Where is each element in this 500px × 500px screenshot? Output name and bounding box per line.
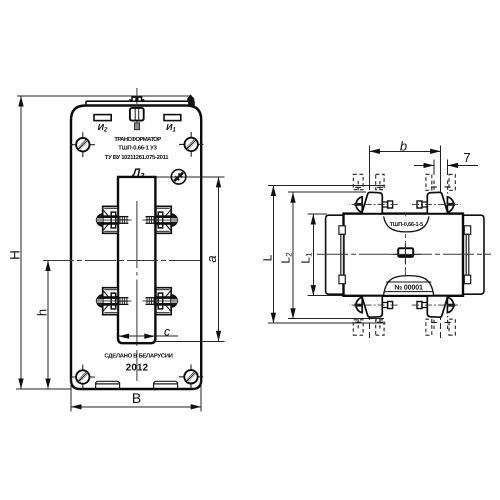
- horizontal centerline: [43, 260, 202, 262]
- svg-text:ТУ ВУ 10211261.075-2011: ТУ ВУ 10211261.075-2011: [105, 154, 169, 161]
- top terminal clamp small block on bar: [132, 97, 142, 101]
- svg-text:№ 00001: № 00001: [394, 285, 423, 292]
- L2 dimension line: [292, 192, 294, 319]
- a bottom extension line: [155, 340, 224, 342]
- b extension line left: [368, 145, 370, 190]
- h dimension line: [47, 261, 49, 390]
- terminal cover plate right: [164, 115, 181, 121]
- grounding bolt (dark, top right): [187, 94, 194, 105]
- 7 dimension arrows: [414, 164, 434, 166]
- clamp bottom-left: [349, 296, 398, 317]
- phantom bottom-right: [426, 316, 455, 335]
- svg-text:h: h: [35, 309, 50, 316]
- clamp top-left: [349, 192, 398, 213]
- top-left case screw: [71, 132, 95, 157]
- svg-text:ТШП-0,66-1-5: ТШП-0,66-1-5: [390, 222, 423, 228]
- svg-text:СДЕЛАНО В БЕЛАРУСИИ: СДЕЛАНО В БЕЛАРУСИИ: [104, 352, 172, 359]
- clamp upper-right: [142, 206, 178, 233]
- right mounting foot: [154, 381, 178, 389]
- horizontal centerline (side view): [317, 253, 491, 255]
- top mounting bar: [86, 101, 194, 105]
- screw pin below block: [135, 123, 140, 130]
- b dimension line: [369, 150, 440, 152]
- svg-text:7: 7: [463, 150, 470, 165]
- clamp upper-left: [96, 206, 132, 233]
- L extension lines: [268, 185, 385, 187]
- clamp lower-left: [96, 288, 132, 315]
- svg-text:В: В: [132, 390, 141, 406]
- phantom bottom-left: [353, 317, 384, 335]
- top-right case screw: [179, 132, 203, 157]
- svg-text:a: a: [204, 255, 219, 262]
- right busbar end cap: [463, 215, 484, 294]
- left rib: [339, 226, 345, 284]
- front vertical centerline: [136, 88, 138, 381]
- B extension lines: [70, 378, 72, 412]
- bottom-left case screw: [71, 365, 95, 390]
- L1 extension lines: [308, 213, 328, 215]
- center window mark: [398, 248, 413, 257]
- B dimension line: [71, 406, 201, 408]
- svg-text:ТШП-0,66-1 У3: ТШП-0,66-1 У3: [118, 144, 157, 151]
- vertical centerline (side view): [404, 215, 406, 295]
- svg-text:c: c: [164, 324, 170, 338]
- left clamp centerline (to lower clamp phantoms): [368, 296, 370, 339]
- grounding point symbol: [171, 170, 186, 185]
- clamp lower-right: [142, 288, 178, 315]
- top label oval: [384, 216, 429, 232]
- H dimension line: [20, 96, 22, 389]
- bottom-right case screw: [179, 364, 203, 389]
- bottom label oval: [384, 276, 434, 295]
- b / clamp centerline right: [440, 145, 442, 213]
- svg-text:L: L: [261, 254, 275, 261]
- transformer body: [71, 106, 201, 390]
- transformer body (side): [344, 214, 464, 296]
- left mounting foot: [96, 381, 120, 389]
- L2 extension lines: [288, 191, 366, 193]
- phantom top-left: [353, 174, 384, 192]
- clamp bottom-right: [412, 296, 461, 317]
- H top extension line: [17, 95, 190, 97]
- a top extension line through ground symbol: [155, 176, 224, 178]
- svg-text:ТРАНСФОРМАТОР: ТРАНСФОРМАТОР: [114, 136, 161, 143]
- L1 dimension line: [312, 214, 314, 296]
- svg-text:H: H: [8, 250, 23, 260]
- svg-text:2012: 2012: [126, 363, 149, 374]
- L dimension line: [272, 186, 274, 324]
- left busbar end cap: [326, 215, 344, 294]
- svg-text:b: b: [400, 138, 407, 153]
- a dimension line: [218, 177, 220, 341]
- window opening: [118, 177, 155, 343]
- terminal cover plate left: [94, 115, 111, 121]
- right rib: [464, 226, 470, 284]
- clamp top-right: [412, 192, 461, 213]
- bottom extension line (H,h): [16, 388, 71, 390]
- c dimension line: [119, 335, 178, 337]
- main terminal block below bar: [130, 108, 144, 121]
- phantom top-right: [426, 174, 455, 193]
- 7 dimension ticks: [433, 159, 435, 175]
